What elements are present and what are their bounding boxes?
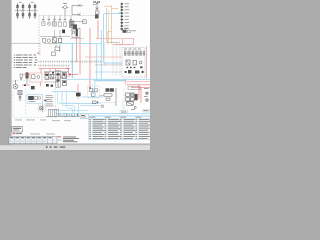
tall component column xyxy=(56,71,60,88)
pump stack inside blue box xyxy=(18,90,22,98)
pump P1 xyxy=(13,80,18,89)
small box component xyxy=(83,20,86,24)
gray line and dashed verticals x=106-120 xyxy=(106,41,120,43)
labels row above relays xyxy=(42,3,72,20)
enclosure top row symbols xyxy=(124,51,144,56)
motor comp bottom middle xyxy=(73,84,81,99)
frame line left xyxy=(12,42,41,44)
dashed drop from frame line xyxy=(39,43,41,56)
faint labels below blue box xyxy=(15,120,71,122)
red wire from box xyxy=(22,74,41,86)
row separators xyxy=(89,120,150,137)
breaker symbol CB2 xyxy=(78,13,81,16)
faint text above strip xyxy=(30,133,55,136)
coil assembly below xyxy=(71,24,79,30)
right dashed enclosure xyxy=(122,48,145,78)
enclosure inner marks row xyxy=(126,66,142,68)
red lines bottom right xyxy=(127,85,150,103)
title block right text xyxy=(63,137,79,143)
enclosure labels xyxy=(124,48,141,51)
cyan vertical main xyxy=(71,44,73,78)
relay row under bus: drops xyxy=(44,16,72,22)
red weaves xyxy=(44,69,71,78)
red bordered box left xyxy=(30,73,42,82)
red box right: top xyxy=(113,39,147,79)
label boxes on cyan lines xyxy=(120,110,149,114)
right dashed line bottom xyxy=(123,89,125,110)
bottom bus with ground components xyxy=(46,116,86,118)
white schematic page xyxy=(12,0,151,144)
cyan wire net top-right xyxy=(101,14,122,80)
connector double-row xyxy=(38,60,102,62)
red bus under connector row xyxy=(39,69,71,74)
cyan tick at strip xyxy=(119,12,121,13)
cyan horizontal mid xyxy=(58,43,101,45)
valve component xyxy=(43,38,51,42)
page bottom edge shadow xyxy=(12,143,151,146)
wavy cut line xyxy=(95,64,122,65)
inset text block xyxy=(46,95,54,106)
contactor dark body xyxy=(95,15,99,19)
red box net center xyxy=(66,68,80,75)
dashed control bus xyxy=(39,15,96,17)
wire top-middle L-shapes xyxy=(72,6,83,15)
vertical drops to bottom bus xyxy=(48,109,59,116)
contactor cluster mid-top xyxy=(70,28,84,38)
cyan-pink bottom-right bundle xyxy=(66,78,150,80)
relay K1 xyxy=(42,22,45,26)
viewer bottom band xyxy=(0,145,150,150)
header marks xyxy=(89,116,141,119)
blue vertical xyxy=(96,44,98,81)
small comp above table xyxy=(92,101,98,104)
nested cyan corners bottom-middle xyxy=(52,92,101,116)
page left edge shadow xyxy=(11,0,12,144)
cluster left of right-bottom manifold xyxy=(101,88,116,107)
arrow marker xyxy=(44,99,47,101)
bottom-right manifold cluster xyxy=(126,92,149,109)
relay K4 xyxy=(58,22,61,26)
legend table (bottom right) xyxy=(89,116,150,139)
notes text block xyxy=(14,55,37,68)
motor cluster M2 (top-left) xyxy=(27,4,38,19)
box component B1 xyxy=(52,47,60,56)
small dashed box under xyxy=(38,105,46,111)
dashed box mid-bottom right of center xyxy=(88,86,99,98)
small comp row xyxy=(24,84,35,89)
relay K5 xyxy=(63,22,66,26)
motor cluster M1 (top-left) xyxy=(15,4,26,19)
dashed box left edge xyxy=(38,16,40,56)
terminal strip column (right top) xyxy=(119,3,130,32)
blue box solid with motor unit xyxy=(27,95,43,103)
relay K3 xyxy=(53,22,57,27)
page background xyxy=(0,0,150,150)
red-pink horizontal upper right xyxy=(96,38,134,40)
hatch ground xyxy=(57,113,63,116)
top right small cluster xyxy=(123,28,136,33)
relay K2 xyxy=(47,22,50,25)
long cyan horizontals to right edge xyxy=(58,113,150,115)
contactor stack right of middle xyxy=(93,1,100,14)
blue dashed enclosure (bottom-left big) xyxy=(13,81,56,118)
left cluster small pumps xyxy=(20,73,28,84)
top gray box xyxy=(128,87,140,90)
fuse F1 (circle w/ leads top middle) xyxy=(62,6,69,16)
part number box bottom-left xyxy=(12,127,22,134)
orange wire vertical xyxy=(104,6,118,45)
copyright marks on gray band xyxy=(46,146,65,148)
vertical links mid cluster xyxy=(54,30,60,52)
enclosure mid components xyxy=(126,60,142,65)
table left header cells xyxy=(80,114,88,118)
relay K6 coil w/ core xyxy=(69,21,74,27)
enclosure bottom components xyxy=(125,70,144,74)
title block strip xyxy=(9,136,57,143)
breaker symbol CB1 xyxy=(78,4,81,7)
horizontal link line xyxy=(70,21,85,23)
junction dot red xyxy=(89,87,91,89)
dark junction box xyxy=(62,30,65,34)
red wire from contactor down xyxy=(77,20,99,87)
gray verticals near x=106 xyxy=(104,42,106,66)
pink horizontal mid xyxy=(85,56,122,58)
rows of tiny text xyxy=(89,119,150,139)
red mark cell xyxy=(58,135,62,138)
mid cluster components xyxy=(52,38,61,43)
column separators xyxy=(92,116,138,139)
cyan line set bottom-left xyxy=(52,92,103,104)
center dense cluster xyxy=(44,72,68,82)
tiny red mark xyxy=(37,53,39,54)
mid cluster horizontals xyxy=(40,37,70,44)
